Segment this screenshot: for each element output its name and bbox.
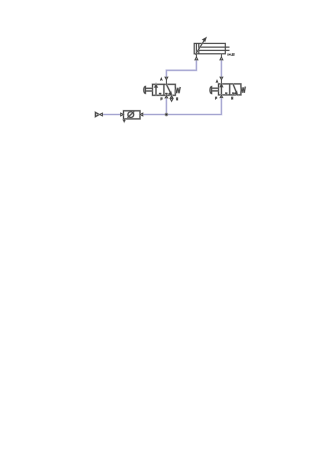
valve V2 right-square blocked P (T symbol) [232, 93, 234, 95]
wire W1: valve V1 port A to cylinder left port [166, 60, 196, 77]
valve V2 left-square blocked R (T symbol) [225, 93, 227, 95]
valve V2 port A stub and arrow [220, 77, 223, 84]
valve V1 right-square blocked P (T symbol) [165, 94, 167, 96]
valve V1 port A stub and arrow [165, 77, 168, 84]
cylinder right port [220, 54, 223, 60]
junction node T1 [165, 113, 168, 116]
valve V2 port labels A P R [216, 80, 234, 99]
valve V2 return spring [241, 87, 245, 93]
valve V1 pushbutton actuator [144, 86, 153, 93]
valve V1 port labels A P R [160, 78, 178, 100]
service unit left port arrow [121, 113, 124, 116]
service unit 0Z (simplified symbol) [124, 111, 141, 119]
valve V1 right-square exhaust diagonal arrow [166, 84, 171, 95]
valve V2 left-square flow arrow [220, 84, 222, 95]
valve V2 right-square exhaust diagonal arrow [233, 84, 237, 95]
valve V1 body (3/2-way pushbutton valve, spring return) [153, 84, 176, 95]
wire W4: supply line from service unit to valve V2 port P [143, 96, 222, 115]
cylinder adjustability arrow [195, 38, 206, 55]
compressed air source [95, 112, 99, 116]
valve V2 port P stub and arrow [220, 95, 222, 98]
valve V2 body (3/2-way pushbutton valve, spring return) [219, 84, 241, 95]
service unit right port arrow [140, 113, 143, 116]
valve V2 pushbutton actuator [210, 87, 219, 94]
valve V1 left-square flow arrow [155, 85, 157, 96]
service unit drain [124, 119, 125, 122]
valve V1 left-square blocked R (T symbol) [159, 94, 161, 96]
air source output port arrow [100, 113, 103, 116]
cylinder left port [195, 54, 198, 60]
wire W5: air source to service unit [102, 113, 121, 115]
wire W3: valve V1 port P down to junction node [165, 96, 167, 114]
valve V1 return spring [175, 87, 180, 93]
valve V1 port P stub and arrow [165, 95, 167, 98]
wire W2: valve V2 port A to cylinder right port [220, 60, 222, 77]
valve V1 port R exhaust [170, 95, 173, 101]
label x=1.23 [228, 54, 235, 56]
cylinder 1A body [194, 43, 229, 53]
